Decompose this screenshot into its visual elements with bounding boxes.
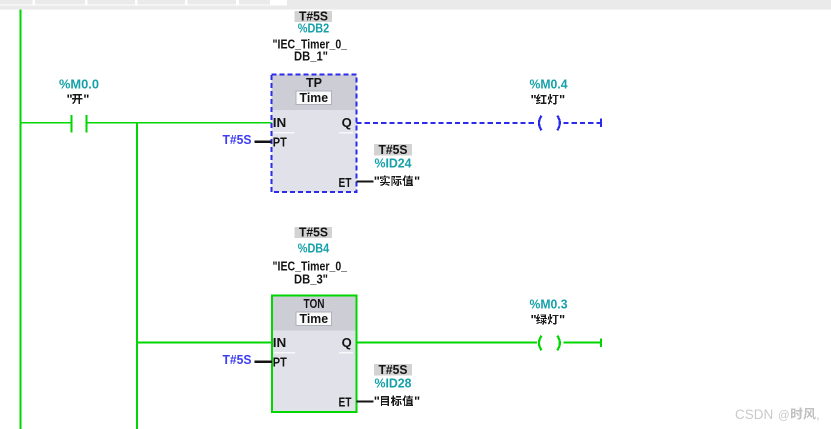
coil %M0.3 name 绿 (536, 314, 547, 325)
watermark 风 (803, 408, 815, 420)
svg-text:T#5S: T#5S (223, 352, 252, 367)
svg-text:T#5S: T#5S (299, 225, 328, 240)
right terminal tick net2 (green) (600, 338, 602, 347)
contact name 开 (72, 94, 82, 104)
svg-text:%M0.0: %M0.0 (59, 76, 99, 91)
svg-text:T#5S: T#5S (223, 132, 252, 147)
branch junction vertical wire (green) (136, 122, 138, 429)
svg-text:": " (559, 312, 565, 327)
TON block solid green border (272, 296, 357, 412)
left power rail (green) (20, 10, 22, 429)
TON ET name 值 (402, 395, 413, 406)
TP block body fill (272, 75, 357, 193)
svg-text:%M0.3: %M0.3 (530, 296, 568, 311)
svg-text:%M0.4: %M0.4 (530, 76, 569, 91)
TON pin row separator under IN (274, 352, 353, 353)
svg-text:ET: ET (339, 395, 352, 410)
svg-text:Q: Q (342, 335, 352, 350)
svg-text:%ID24: %ID24 (375, 155, 413, 170)
svg-text:Time: Time (300, 90, 329, 105)
wire coil %M0.4 to right terminal (blue dashed) (564, 122, 601, 124)
coil %M0.4 name 灯 (548, 94, 559, 104)
svg-text:Q: Q (342, 115, 352, 130)
TON ET name 目 (381, 396, 389, 406)
TP monitor value box T#5S (295, 11, 333, 22)
wire coil %M0.3 to right terminal (green) (564, 342, 601, 344)
right terminal tick net1 (blue) (600, 118, 602, 127)
TON PT input wire (black) (255, 361, 273, 363)
TON data type box (296, 312, 332, 325)
TON block header fill (272, 296, 357, 331)
svg-text:%DB2: %DB2 (298, 20, 330, 35)
svg-text:": " (374, 173, 380, 188)
svg-text:ET: ET (339, 175, 352, 190)
svg-text:Time: Time (300, 311, 329, 326)
coil %M0.4 left paren (blue) (539, 116, 542, 131)
TP Q output dashed wire to coil (blue) (357, 122, 537, 124)
TON Q output wire to coil (green) (357, 342, 537, 344)
contact %M0.0 right bar (85, 115, 87, 133)
svg-text:TP: TP (306, 75, 322, 90)
svg-text:IN: IN (273, 335, 287, 350)
TP block header fill (272, 75, 357, 110)
svg-text:DB_1": DB_1" (294, 48, 328, 63)
wire contact to branch junction and TP block (green) (87, 122, 272, 124)
svg-text:IN: IN (273, 115, 287, 130)
TP ET monitor value box T#5S (374, 144, 412, 155)
TP pin row separator under IN (274, 132, 354, 133)
svg-text:": " (559, 92, 565, 107)
coil %M0.4 name 红 (536, 94, 547, 104)
svg-text:%DB4: %DB4 (298, 240, 330, 255)
svg-text:": " (83, 91, 89, 106)
TON block body fill (272, 296, 357, 412)
svg-text:": " (414, 393, 420, 408)
TON ET monitor value box T#5S (374, 364, 412, 375)
svg-text:TON: TON (304, 296, 325, 311)
svg-text:%ID28: %ID28 (375, 375, 412, 390)
TP ET name 实 (380, 175, 390, 186)
svg-text:PT: PT (273, 135, 287, 150)
toolbar strip background (0, 0, 831, 10)
svg-text:": " (531, 312, 537, 327)
TON ET name 标 (391, 395, 402, 406)
TP block dashed blue border (272, 75, 357, 193)
TP PT input wire (black) (255, 141, 272, 143)
contact %M0.0 left bar (70, 115, 72, 133)
coil %M0.3 left paren (green) (539, 336, 542, 351)
svg-text:": " (67, 91, 73, 106)
wire branch to TON IN (green) (136, 342, 272, 344)
svg-text:": " (414, 173, 420, 188)
TP ET output wire (black) (357, 181, 374, 183)
wire rail to contact (green) (20, 122, 70, 124)
coil %M0.3 name 灯 (548, 314, 559, 324)
svg-text:DB_3": DB_3" (294, 271, 328, 286)
TP ET name 值 (402, 175, 413, 186)
svg-text:PT: PT (273, 355, 287, 370)
svg-text:@: @ (778, 410, 790, 422)
svg-text:CSDN: CSDN (735, 407, 773, 422)
TON ET output wire (black) (357, 401, 374, 403)
svg-text:": " (374, 393, 380, 408)
svg-text:": " (531, 92, 537, 107)
toolbar button separators (0, 0, 287, 6)
TP data type box (296, 91, 332, 104)
watermark 时 (791, 408, 803, 420)
coil %M0.3 right paren (green) (557, 336, 560, 351)
coil %M0.4 right paren (blue) (557, 116, 560, 131)
svg-text:,: , (816, 407, 820, 422)
TP ET name 际 (391, 176, 401, 186)
TON monitor value box T#5S (295, 227, 333, 238)
